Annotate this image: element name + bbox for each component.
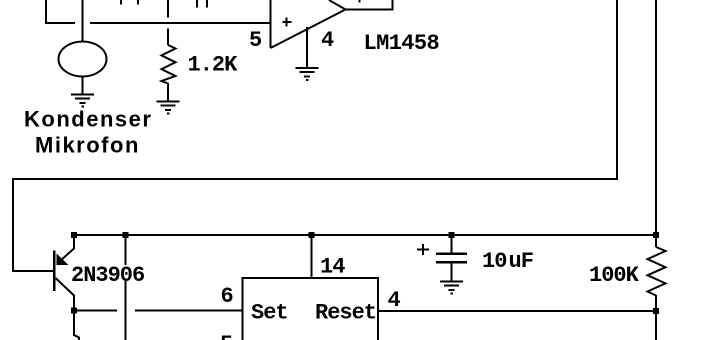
junction dot rail-cap [449, 232, 455, 238]
resistor 100K bottom lead [655, 295, 657, 340]
supply wire far right vertical [655, 0, 657, 247]
svg-text:2N3906: 2N3906 [71, 263, 144, 288]
transistor emitter vertical [73, 235, 75, 249]
wire x=125 lower [125, 281, 127, 340]
wire microphone bottom lead [82, 76, 84, 94]
junction dot rail-x125 [123, 232, 129, 238]
capacitor C1 stem top [451, 235, 453, 253]
svg-text:14: 14 [320, 255, 345, 280]
svg-text:5: 5 [220, 332, 233, 340]
svg-text:1.2K: 1.2K [188, 53, 239, 78]
capacitor C1 plate bottom [436, 261, 467, 264]
capacitor C1 stem bottom [451, 263, 453, 281]
svg-text:10: 10 [482, 249, 506, 274]
partial component tick top-left 2 [137, 0, 139, 5]
svg-text:4: 4 [321, 28, 334, 53]
transistor emitter diagonal [60, 248, 75, 261]
svg-text:LM1458: LM1458 [364, 31, 440, 56]
pin6 wire right part [135, 310, 242, 312]
pin4 wire [378, 310, 656, 312]
ground under microphone [71, 95, 94, 107]
feedback wire horizontal [13, 178, 618, 180]
resistor R 1.2K top lead lower [167, 29, 169, 46]
IC left edge [242, 277, 244, 340]
op-amp U1 left edge [270, 0, 272, 48]
IC top edge [242, 277, 380, 279]
partial component tick top-left 1 [120, 0, 122, 5]
bottom rail [74, 234, 656, 236]
microphone body [59, 42, 107, 77]
collector bottom jog [74, 335, 79, 340]
svg-text:uF: uF [509, 249, 533, 274]
wire corner top-left [45, 0, 47, 24]
transistor Q1 base bar [53, 251, 56, 292]
emitter arrow head [57, 254, 69, 266]
capacitor plates partial top [196, 0, 198, 8]
ground under capacitor C1 [440, 282, 463, 294]
svg-text:4: 4 [388, 288, 401, 313]
resistor R 1.2K bottom lead [167, 83, 169, 101]
resistor R 1.2K zigzag [162, 45, 176, 84]
plus sign capacitor [417, 244, 429, 255]
feedback wire right vertical [616, 0, 618, 180]
svg-text:100K: 100K [589, 263, 640, 288]
feedback wire left vertical [12, 178, 14, 272]
resistor 100K zigzag [648, 247, 666, 296]
transistor base wire [13, 270, 55, 272]
junction dot rail-pin14 [309, 232, 315, 238]
capacitor C1 plate top [436, 252, 467, 255]
junction dot collector-pin6 [71, 308, 77, 314]
junction dot rail-100K [653, 232, 659, 238]
svg-text:5: 5 [249, 28, 262, 53]
op-amp U1 pin4 stub [306, 27, 308, 68]
wire x=125 upper [125, 235, 127, 265]
junction dot pin4-100K [653, 308, 659, 314]
IC right edge [377, 278, 379, 340]
transistor collector diagonal [56, 278, 75, 296]
op-amp output wire [345, 9, 394, 11]
op-amp top edge partial [329, 0, 346, 10]
pin14 wire [311, 235, 313, 278]
svg-text:Reset: Reset [315, 301, 376, 326]
wire to op-amp +input [90, 22, 271, 24]
plus sign op-amp input [283, 18, 292, 27]
op-amp output wire up [392, 0, 394, 11]
collector lower vertical [73, 311, 75, 336]
svg-text:Set: Set [251, 301, 288, 326]
svg-text:Kondenser: Kondenser [24, 107, 152, 132]
ground under op-amp pin4 [296, 68, 319, 80]
tick above op-amp [359, 0, 361, 3]
wire microphone top lead [82, 0, 84, 42]
svg-text:Mikrofon: Mikrofon [35, 133, 140, 158]
resistor R 1.2K top lead upper [167, 0, 169, 18]
pin6 wire left part [74, 310, 117, 312]
ground under 1.2K resistor [157, 102, 180, 114]
op-amp bottom edge [271, 10, 346, 49]
svg-text:6: 6 [221, 284, 233, 309]
junction dot rail-emitter [71, 232, 77, 238]
collector vertical [73, 295, 75, 311]
